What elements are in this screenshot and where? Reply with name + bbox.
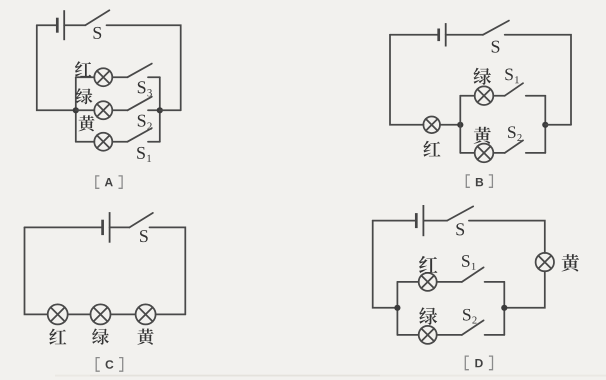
wire A left side down <box>37 25 76 110</box>
lamp green (C) <box>91 304 111 324</box>
lamp red (C) <box>48 304 68 324</box>
wire C left side down <box>25 227 48 314</box>
wire A branch1 contact <box>148 76 160 78</box>
battery D <box>416 205 423 236</box>
label S2 (A) <box>138 115 152 130</box>
lamp yellow (C) <box>136 304 156 324</box>
switch S1 blade (A) <box>128 128 152 142</box>
wire B red lamp to node <box>440 124 460 126</box>
wire A branch3 mid <box>112 141 127 143</box>
wire D switch to top-right corner down <box>469 221 545 253</box>
wire B right connector <box>545 124 571 126</box>
label B <box>466 175 492 187</box>
switch S2 blade (B) <box>505 140 523 153</box>
label S (C) <box>140 230 148 242</box>
wire A right rail <box>159 77 161 142</box>
label lv green (B) <box>474 68 491 85</box>
wire B switch to top-right corner down <box>505 35 571 125</box>
wire B branch2 contact <box>526 152 546 154</box>
wire B branch2 mid <box>493 152 505 154</box>
label huang yellow (C) <box>137 329 153 345</box>
wire D left side down <box>373 221 398 308</box>
lamp yellow (D) <box>536 253 554 271</box>
wire C top-left segment <box>25 226 103 228</box>
lamp yellow (B) <box>475 144 494 163</box>
wire B left rail <box>459 96 461 153</box>
junction node right (B) <box>542 122 548 128</box>
label hong red (B) <box>423 141 440 157</box>
label lv green (D) <box>419 307 437 324</box>
wire D right rail <box>503 282 505 335</box>
label S2 (B) <box>508 126 522 141</box>
wire A left rail <box>75 77 77 142</box>
label huang yellow (B) <box>474 127 491 144</box>
wire A branch2 contact <box>148 109 160 111</box>
wire D battery to switch <box>423 220 447 222</box>
wire C bottom seg3 <box>156 313 186 315</box>
switch S blade (A) <box>85 10 109 25</box>
label S1 (A) <box>137 147 151 162</box>
scan shadow bottom <box>55 375 606 377</box>
wire D top-left segment <box>373 220 417 222</box>
wire A switch to top-right corner and right side down <box>107 25 181 110</box>
battery B <box>439 23 446 46</box>
switch S blade (D) <box>447 206 473 220</box>
wire A branch2 left <box>76 109 95 111</box>
wire B branch1 left <box>460 95 474 97</box>
label S (B) <box>492 41 500 53</box>
label hong red (A) <box>75 61 91 77</box>
wire C battery to switch <box>110 226 130 228</box>
switch S1 blade (B) <box>505 83 523 96</box>
switch S blade (C) <box>130 213 153 228</box>
lamp green (D) <box>419 326 437 344</box>
label S2 (D) <box>463 309 477 324</box>
lamp green (A) <box>94 101 112 119</box>
label lv green (C) <box>92 328 109 344</box>
label C <box>96 358 123 372</box>
wire D branch2 left <box>397 334 418 336</box>
lamp red (A) <box>94 68 112 86</box>
wire A battery to switch <box>64 24 85 26</box>
switch S3 blade (A) <box>128 64 152 78</box>
junction node left (D) <box>394 305 400 311</box>
wire D branch2 mid <box>437 334 462 336</box>
lamp green (B) <box>475 86 494 105</box>
wire A branch2 mid <box>112 109 127 111</box>
junction node right (D) <box>501 305 507 311</box>
wire B battery to switch <box>446 34 483 36</box>
wire D branch1 left <box>397 281 418 283</box>
label huang yellow (A) <box>78 115 94 131</box>
wire A branch1 mid <box>112 76 127 78</box>
wire D branch2 contact <box>485 334 505 336</box>
wire D left rail <box>396 282 398 335</box>
wire B branch2 left <box>460 152 474 154</box>
wire B branch1 mid <box>493 95 505 97</box>
label D <box>465 356 492 370</box>
wire D right side down <box>504 271 545 308</box>
wire A right connector <box>160 109 181 111</box>
junction node right (A) <box>157 107 163 113</box>
wire C bottom seg2 <box>111 313 136 315</box>
wire B right rail <box>544 96 546 153</box>
switch S1 blade (D) <box>462 267 484 282</box>
wire B top-left segment <box>390 34 439 36</box>
wire B branch1 contact <box>526 95 546 97</box>
wire D branch1 mid <box>437 281 462 283</box>
lamp yellow (A) <box>94 133 112 151</box>
switch S2 blade (A) <box>128 97 152 111</box>
label hong red (D) <box>419 256 437 273</box>
label S1 (B) <box>505 69 518 84</box>
battery A <box>57 10 64 40</box>
label S (D) <box>456 223 464 235</box>
label S (A) <box>94 27 102 39</box>
label hong red (C) <box>49 329 66 345</box>
junction node left (A) <box>73 107 79 113</box>
label S3 (A) <box>138 81 152 96</box>
label S1 (D) <box>462 255 475 270</box>
wire A branch3 contact <box>148 141 160 143</box>
wire D branch1 contact <box>485 281 505 283</box>
junction node left (B) <box>457 122 463 128</box>
lamp red (D) <box>419 273 437 291</box>
wire A top-left segment <box>37 24 58 26</box>
battery C <box>103 212 110 243</box>
wire B left side down <box>390 35 424 125</box>
switch S blade (B) <box>483 21 509 35</box>
wire C switch to top-right corner down <box>150 227 186 314</box>
wire A branch3 left <box>76 141 95 143</box>
lamp red (B) <box>423 117 440 134</box>
label A <box>96 176 122 188</box>
wire C bottom seg1 <box>68 313 91 315</box>
switch S2 blade (D) <box>462 320 484 335</box>
label huang yellow (D) <box>562 254 580 271</box>
label lv green (A) <box>76 88 92 104</box>
wire A branch1 left <box>76 76 95 78</box>
